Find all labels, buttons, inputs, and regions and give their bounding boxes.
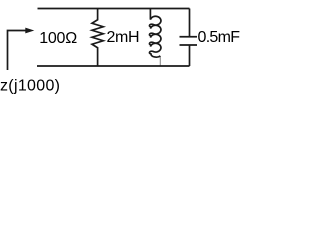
svg-text:z(j1000): z(j1000) xyxy=(0,77,60,94)
capacitor C 0.5mF top lead xyxy=(189,9,191,37)
arrowhead xyxy=(25,28,34,34)
svg-text:100Ω: 100Ω xyxy=(39,30,77,47)
resistor R 100ohm xyxy=(92,9,103,67)
svg-text:0.5mF: 0.5mF xyxy=(198,29,241,46)
capacitor C 0.5mF bottom lead xyxy=(189,45,191,66)
inductor L 2mH xyxy=(149,9,160,58)
inductor exit wire xyxy=(159,56,161,66)
arrow z looking into port xyxy=(8,31,26,71)
capacitor plate top xyxy=(180,36,198,38)
wire bottom xyxy=(37,65,190,67)
wire top xyxy=(38,8,190,10)
svg-text:2mH: 2mH xyxy=(107,29,140,46)
capacitor plate bottom xyxy=(180,44,198,46)
